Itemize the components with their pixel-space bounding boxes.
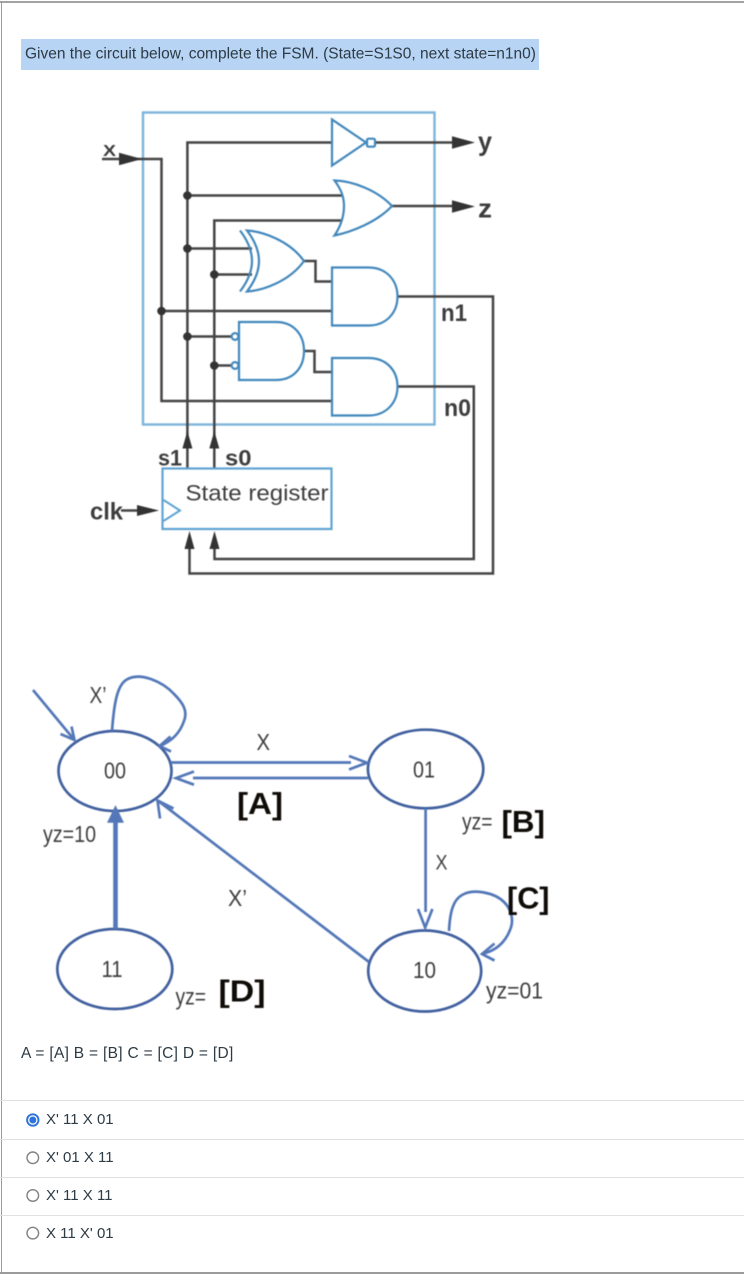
svg-text:State register: State register: [186, 481, 329, 506]
svg-text:s0: s0: [225, 446, 252, 471]
svg-text:yz=: yz=: [176, 984, 207, 1010]
svg-text:X: X: [257, 729, 271, 755]
svg-text:X’: X’: [228, 885, 247, 911]
svg-text:X: X: [103, 143, 116, 160]
svg-text:[D]: [D]: [219, 974, 266, 1009]
svg-text:00: 00: [104, 758, 126, 784]
svg-text:y: y: [478, 127, 492, 157]
svg-text:n0: n0: [444, 395, 471, 422]
svg-text:s1: s1: [158, 446, 182, 471]
svg-text:z: z: [478, 194, 492, 224]
svg-text:X: X: [436, 852, 448, 875]
svg-text:yz=10: yz=10: [43, 821, 96, 847]
svg-text:n1: n1: [441, 300, 467, 327]
svg-text:[A]: [A]: [237, 786, 283, 821]
svg-text:yz=01: yz=01: [486, 978, 543, 1004]
svg-text:X’: X’: [90, 682, 107, 708]
svg-text:[C]: [C]: [507, 881, 550, 916]
svg-text:[B]: [B]: [502, 804, 546, 839]
svg-text:yz=: yz=: [462, 809, 493, 835]
svg-text:11: 11: [102, 956, 123, 982]
svg-text:clk: clk: [90, 499, 124, 526]
svg-text:01: 01: [413, 757, 435, 783]
svg-text:10: 10: [413, 957, 436, 983]
